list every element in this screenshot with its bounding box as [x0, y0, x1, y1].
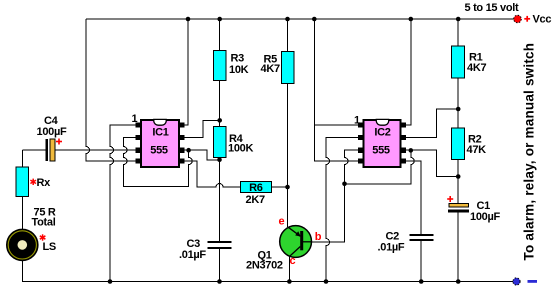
wire left vertical from top rail with hop over C4 wire, to IC1 pin4L	[86, 19, 136, 161]
wire C2 bottom to bottom rail	[420, 241, 422, 282]
svg-text:Rx: Rx	[37, 177, 52, 189]
resistor R4	[214, 126, 254, 157]
wire C4 left plate to Rx branch	[22, 149, 45, 151]
junction node R6 right / emitter	[285, 185, 290, 190]
resistor Rx	[16, 167, 56, 229]
wire C3 bottom to bottom rail	[219, 249, 221, 282]
junction top rail at x=188	[186, 17, 191, 22]
wire Q1 collector to bottom rail	[288, 257, 290, 282]
svg-text:To alarm, relay, or manual swi: To alarm, relay, or manual switch	[522, 43, 537, 261]
wire R4 bottom to C3 top	[219, 158, 221, 241]
transistor Q1	[246, 215, 322, 271]
svg-text:5 to 15 volt: 5 to 15 volt	[465, 2, 519, 14]
wire IC1 pin2L under-loop to node at (188.6,150)	[124, 138, 193, 187]
junction node pin3R IC2	[409, 148, 414, 153]
junction top rail at x=458.2	[456, 17, 461, 22]
negative terminal (blue dot)	[513, 278, 537, 285]
resistor R3	[214, 50, 249, 80]
wire IC2 pin2L down to bottom rail with hops	[326, 138, 359, 282]
svg-text:b: b	[315, 231, 322, 243]
svg-text:R6: R6	[249, 182, 263, 194]
junction bottom rail x=326	[324, 279, 329, 284]
wire top rail down x=314.3 to IC2 pin4L with hops	[314, 19, 359, 161]
junction node R1-R2	[456, 107, 461, 112]
capacitor C4	[37, 115, 67, 161]
wire top rail	[86, 18, 514, 20]
junction top rail at x=410.8	[409, 17, 414, 22]
svg-text:10K: 10K	[229, 64, 249, 76]
wire top rail to R3	[219, 19, 221, 50]
resistor R6	[240, 181, 271, 206]
wire R2 bottom to C1	[457, 159, 459, 203]
junction bottom rail x=289.4	[287, 279, 292, 284]
wire Q1 base to vertical x=344.5	[311, 184, 344, 242]
wire R6 right to emitter line node	[271, 186, 287, 188]
svg-text:1: 1	[354, 114, 360, 126]
junction node R2-C1	[456, 174, 461, 179]
wire IC2 pin3L down to node (344.5,183.8)	[345, 150, 360, 184]
wire C4 right plate to IC1 pin3L	[55, 149, 136, 151]
wire top rail to R1	[457, 19, 459, 46]
resistor R5	[261, 51, 295, 83]
wire IC2 pin4R to C2 with hop	[405, 161, 421, 234]
junction bottom rail x=219.5	[217, 279, 222, 284]
wire LS to bottom rail corner	[22, 261, 513, 282]
wire Rx branch vertical	[21, 150, 23, 167]
wire IC2 pin3R to R2 bottom node	[405, 150, 458, 176]
capacitor C1	[447, 196, 500, 223]
svg-text:2K7: 2K7	[246, 194, 265, 206]
wire IC1 pin4R to R6 with hops	[184, 161, 240, 187]
wire R5 bottom to R6 node to Q1 emitter	[287, 83, 289, 226]
svg-text:e: e	[279, 215, 285, 227]
loudspeaker LS	[6, 229, 55, 261]
wire IC2 pin1L to vertical	[314, 124, 359, 126]
svg-text:4K7: 4K7	[467, 62, 486, 74]
capacitor C2	[378, 230, 434, 253]
junction node pin3R IC1	[186, 148, 191, 153]
Vcc terminal (red dot)	[465, 2, 552, 25]
wire IC2 pin1R up to top rail	[405, 19, 411, 125]
svg-text:C1: C1	[477, 200, 491, 212]
svg-text:4K7: 4K7	[261, 63, 280, 75]
op-amp IC2 (555 timer)	[354, 114, 406, 167]
svg-text:1: 1	[132, 113, 138, 125]
svg-text:555: 555	[150, 144, 168, 156]
wire R3 to R4 through node	[219, 81, 221, 127]
wire C1 bottom to bottom rail	[457, 212, 459, 281]
wire IC1 pin1R up to top rail	[184, 19, 188, 125]
svg-text:2N3702: 2N3702	[246, 259, 283, 271]
svg-text:c: c	[290, 255, 296, 267]
junction bottom rail x=421.2	[419, 279, 424, 284]
svg-text:47K: 47K	[467, 144, 487, 156]
resistor R2	[451, 128, 486, 159]
wire R1 to R2 through node	[457, 78, 459, 128]
junction node R3-R4	[217, 118, 222, 123]
junction node R4 bottom	[217, 158, 222, 163]
junction bottom rail x=110	[108, 279, 113, 284]
svg-text:100K: 100K	[228, 142, 253, 154]
wire top rail to R5	[287, 19, 289, 51]
wire IC1 pin2R Z to R3/R4 node	[184, 120, 220, 137]
wire node (344.5,183.8) right and up to pin3R node	[345, 150, 415, 183]
junction top rail at x=219.7	[217, 17, 222, 22]
svg-text:100µF: 100µF	[470, 211, 500, 223]
svg-text:555: 555	[372, 144, 390, 156]
junction bottom rail x=458.2	[456, 279, 461, 284]
svg-text:R3: R3	[231, 53, 245, 65]
junction node below IC2	[342, 182, 347, 187]
svg-text:C2: C2	[386, 230, 400, 242]
svg-text:100µF: 100µF	[37, 126, 67, 138]
junction top rail at x=314.3	[312, 17, 317, 22]
resistor R1	[451, 46, 486, 78]
junction top rail at x=287.5	[285, 17, 290, 22]
svg-text:.01µF: .01µF	[378, 242, 405, 254]
svg-text:IC1: IC1	[152, 126, 168, 138]
svg-text:Vcc: Vcc	[533, 14, 552, 26]
wire IC1 pin3R through node (188.6,150) to R4 bottom node	[184, 150, 220, 160]
svg-text:Total: Total	[32, 217, 56, 229]
wire Rx to LS	[21, 197, 23, 230]
wire IC1 pin1L down to bottom rail with hops	[110, 125, 136, 282]
svg-text:LS: LS	[43, 241, 56, 253]
wire IC2 pin2R to R1/R2 node	[405, 109, 458, 138]
svg-text:IC2: IC2	[374, 126, 390, 138]
svg-text:.01µF: .01µF	[179, 249, 206, 261]
capacitor C3	[179, 238, 232, 261]
op-amp IC1 (555 timer)	[132, 113, 185, 167]
